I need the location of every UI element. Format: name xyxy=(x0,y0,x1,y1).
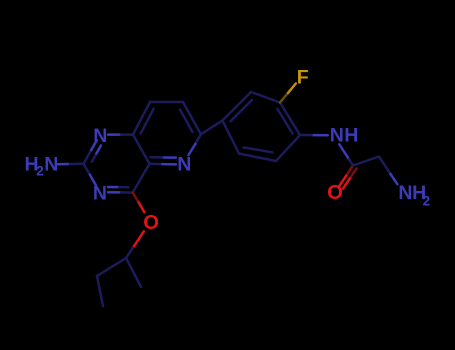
bond NH-CO bright half xyxy=(339,144,349,159)
bond C4a=N5 main bright half xyxy=(162,163,176,166)
bond C7=C6 inner dark xyxy=(180,110,193,133)
bond CO=O main bright half xyxy=(339,176,346,186)
bond CH-CH3 dark xyxy=(126,258,141,287)
bond CO=O inner bright half xyxy=(343,178,350,188)
svg-text:2: 2 xyxy=(36,164,44,179)
bond C4-O dim half xyxy=(133,193,139,203)
bond C2-N3 dark half xyxy=(84,164,90,175)
bond CO=O inner dim half xyxy=(350,168,357,178)
bond O-CH bright half xyxy=(133,232,144,248)
bond CH2b-CH3 dark xyxy=(97,276,103,306)
bond N3=C4 main dark half xyxy=(121,191,133,194)
svg-text:O: O xyxy=(327,182,343,204)
bond C4a=N5 inner bright half xyxy=(164,156,176,159)
bond N3=C4 inner bright half xyxy=(108,186,119,189)
bond C4a=N5 inner dark half xyxy=(151,156,165,159)
bond C2=N1 main bright half xyxy=(91,140,97,150)
bond C5p=C6p inner dark xyxy=(244,148,273,153)
bond C4-C4a dark xyxy=(133,164,150,193)
svg-text:N: N xyxy=(330,124,344,146)
bond C3p=C4p inner dark xyxy=(278,109,293,134)
bond C8a=C8 main dark xyxy=(133,102,150,135)
bond C8-C7 dark xyxy=(150,101,183,104)
bond C6p-C1p dark xyxy=(222,121,239,154)
bond C4p-NH dark half xyxy=(300,134,314,137)
bond C8a=C8 inner dark xyxy=(141,109,154,134)
bond C5p=C6p main dark xyxy=(239,154,276,162)
bond C2=N1 main dark half xyxy=(84,150,92,164)
svg-text:2: 2 xyxy=(423,194,431,209)
svg-text:N: N xyxy=(93,182,107,204)
bond N3=C4 main bright half xyxy=(108,191,121,194)
svg-text:H: H xyxy=(344,124,358,146)
bond C2-N3 bright half xyxy=(90,175,96,185)
bond C6-C1p dark xyxy=(201,121,223,135)
bond C4a-C8a dark xyxy=(133,135,150,164)
svg-text:N: N xyxy=(93,125,107,147)
svg-text:N: N xyxy=(398,182,412,204)
bond NH-CO dark half xyxy=(349,159,353,165)
bond C4a=N5 main dark half xyxy=(150,163,163,166)
bond C4-O bright half xyxy=(139,202,145,212)
bond CH2-NH2 dark half xyxy=(379,157,391,175)
svg-text:F: F xyxy=(297,66,309,88)
bond C2p-C3p dark xyxy=(251,92,280,103)
bond C6-N5 bright half xyxy=(189,144,196,155)
svg-text:N: N xyxy=(177,154,191,176)
bond C4p-C5p dark xyxy=(276,135,300,161)
wire H2N-C2 dark half xyxy=(70,163,84,166)
wire H2N-C2 bright half xyxy=(56,163,70,166)
svg-text:O: O xyxy=(143,212,159,234)
bond N1-C8a bright half xyxy=(108,133,121,136)
label H2N xyxy=(25,154,59,179)
bond CH-CH2b dark xyxy=(97,258,126,276)
bond C1p=C2p inner dark xyxy=(231,100,253,121)
bond CO-CH2 dark xyxy=(353,157,379,166)
bond C6-N5 dark half xyxy=(195,134,200,144)
bond O-CH dark half xyxy=(126,248,133,258)
bond C3p-F dim half xyxy=(280,93,288,103)
bond CO=O main dim half xyxy=(346,166,353,176)
svg-text:N: N xyxy=(44,154,58,176)
bond N1-C8a dark half xyxy=(121,133,133,136)
bond C2=N1 inner bright half xyxy=(96,145,101,153)
bond C1p=C2p main dark xyxy=(222,92,251,121)
bond N3=C4 inner dark half xyxy=(119,186,129,189)
bond C2=N1 inner dark half xyxy=(92,154,97,162)
bond C3p-F bright half xyxy=(288,84,296,93)
bond C3p=C4p main dark xyxy=(280,103,300,136)
bond C7=C6 main dark xyxy=(183,102,201,134)
bond C4p-NH bright half xyxy=(314,134,328,137)
bond CH2-NH2 bright half xyxy=(391,174,398,184)
